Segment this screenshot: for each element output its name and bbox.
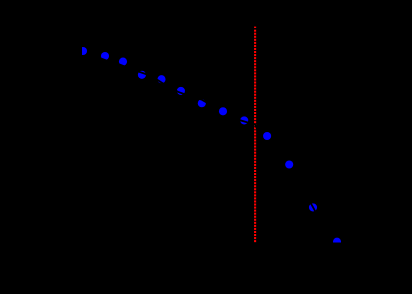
data point P6	[177, 87, 185, 95]
data point P8	[219, 107, 227, 115]
data point P11	[285, 160, 293, 168]
data point P4	[138, 71, 146, 79]
data point P3	[119, 58, 127, 66]
threshold vline (red dotted)	[254, 27, 256, 243]
data point P13	[333, 238, 341, 246]
data point P2	[101, 52, 109, 60]
data point P1	[79, 47, 87, 55]
data point P5	[157, 75, 165, 83]
data point P7	[198, 99, 206, 107]
model line (black, over markers)	[81, 56, 348, 252]
data point P10	[263, 132, 271, 140]
data point P9	[240, 116, 248, 124]
data point P12	[309, 203, 317, 211]
